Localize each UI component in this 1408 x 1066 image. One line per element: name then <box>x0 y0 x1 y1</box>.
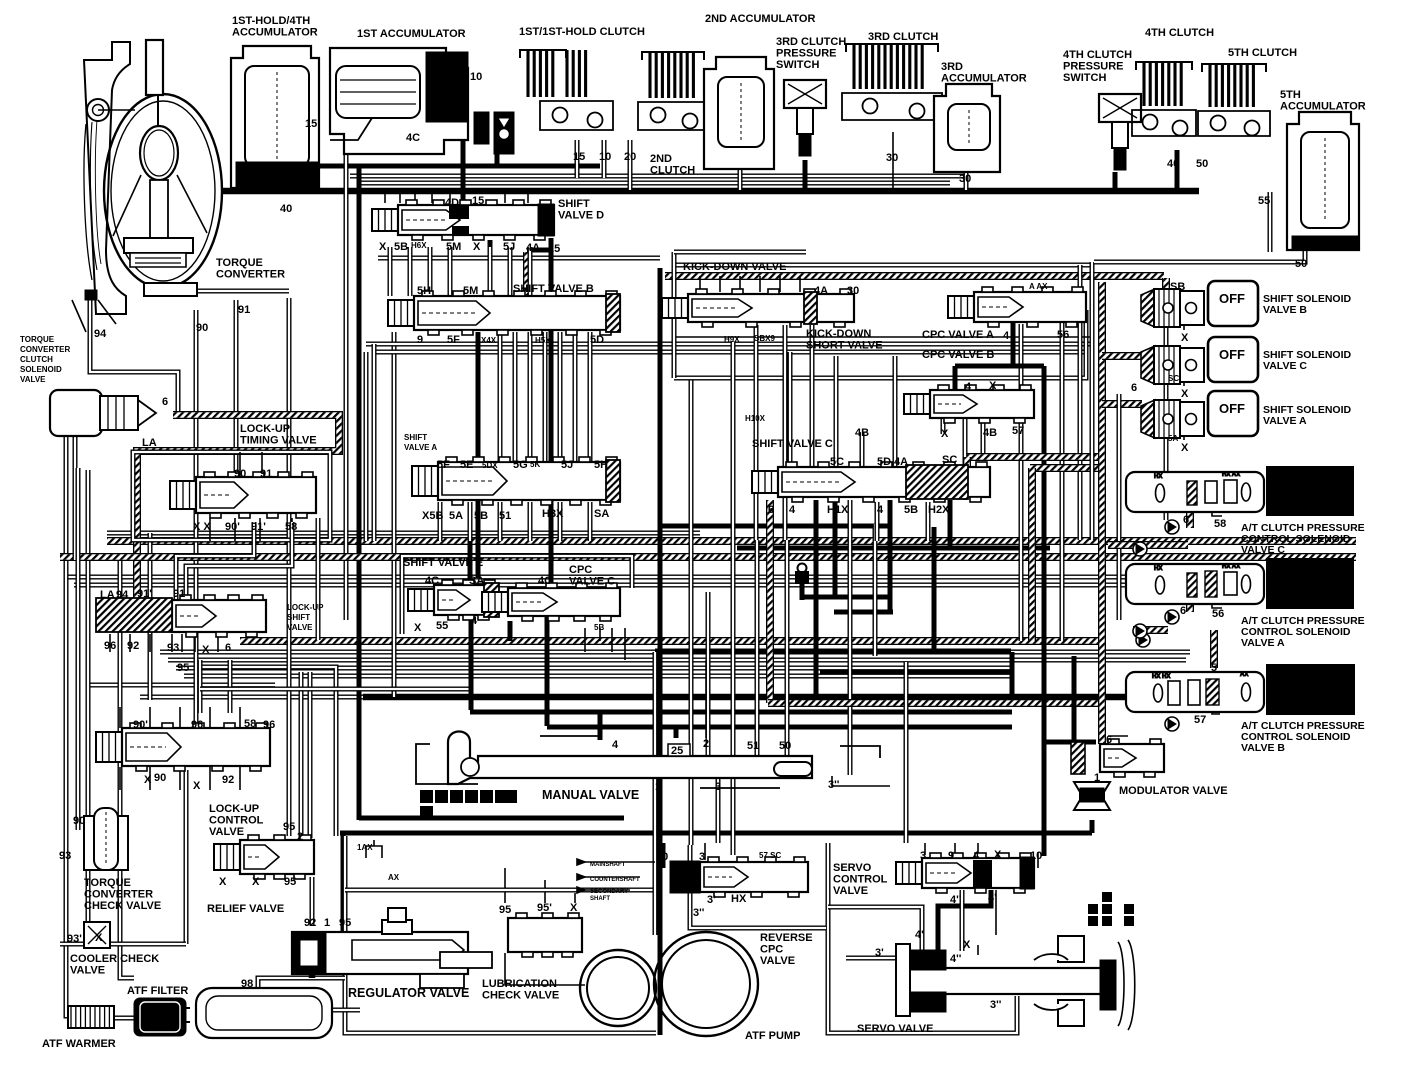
check valve <box>1136 633 1150 647</box>
wire <box>198 660 203 713</box>
svg-text:5B: 5B <box>394 241 408 253</box>
svg-text:95: 95 <box>339 917 351 929</box>
wire <box>66 430 74 1016</box>
wire <box>200 687 470 692</box>
wire <box>149 634 151 652</box>
wire <box>372 344 377 541</box>
svg-text:4: 4 <box>973 850 980 862</box>
wire <box>967 453 1102 461</box>
wire <box>674 310 1086 378</box>
wire <box>611 628 613 652</box>
wire <box>359 816 624 821</box>
wire <box>954 843 956 855</box>
wire <box>810 325 815 467</box>
shift solenoid valve B off box <box>1208 281 1258 326</box>
wire <box>799 276 801 292</box>
wire <box>674 250 806 255</box>
label relief valve <box>207 903 284 915</box>
label lock-up timing valve <box>240 423 317 447</box>
regulator valve <box>292 908 492 988</box>
wire <box>258 978 345 988</box>
wire <box>1162 278 1170 298</box>
1st/1st-hold clutch <box>520 50 613 130</box>
svg-text:HX AX: HX AX <box>1222 564 1240 570</box>
svg-text:1ST-HOLD/4TH: 1ST-HOLD/4TH <box>232 15 310 27</box>
wire <box>1028 468 1036 641</box>
wire <box>438 502 443 541</box>
wire <box>1098 282 1106 744</box>
svg-text:VALVE C: VALVE C <box>1241 544 1285 556</box>
wire <box>1030 464 1102 472</box>
label shift valve A <box>404 433 437 452</box>
svg-text:ATF FILTER: ATF FILTER <box>127 985 188 997</box>
svg-text:4: 4 <box>877 504 884 516</box>
label mainshaft <box>590 862 626 868</box>
svg-text:5G: 5G <box>513 459 528 471</box>
wire <box>833 500 838 597</box>
wire <box>76 468 81 830</box>
label shift solenoid valve B <box>1263 293 1352 316</box>
svg-text:25: 25 <box>671 745 683 757</box>
wire <box>388 247 393 296</box>
wire <box>1037 852 1039 868</box>
svg-text:AX: AX <box>1240 672 1248 678</box>
svg-text:X4X: X4X <box>481 336 497 345</box>
wire <box>977 843 979 855</box>
svg-text:3: 3 <box>920 850 926 862</box>
svg-text:4TH CLUTCH: 4TH CLUTCH <box>1145 27 1214 39</box>
svg-text:5H: 5H <box>594 459 608 471</box>
wire <box>672 252 677 378</box>
svg-text:95: 95 <box>284 876 296 888</box>
svg-text:CONVERTER: CONVERTER <box>20 345 70 354</box>
svg-text:ACCUMULATOR: ACCUMULATOR <box>232 27 318 39</box>
wire <box>357 166 362 820</box>
label lubrication check valve <box>482 978 559 1002</box>
svg-text:R: R <box>438 793 446 804</box>
label 3rd clutch <box>868 31 938 43</box>
wire <box>1102 352 1142 360</box>
wire <box>384 192 386 203</box>
wire <box>658 268 663 1035</box>
wire <box>209 707 211 728</box>
wire <box>357 181 950 186</box>
svg-text:P: P <box>423 793 430 804</box>
wire <box>133 452 330 540</box>
svg-text:57: 57 <box>1012 425 1024 437</box>
label a/t cpc solenoid valve A <box>1241 615 1365 649</box>
wire <box>468 502 473 541</box>
wire <box>960 890 965 951</box>
label lock-up control valve <box>209 803 264 838</box>
label servo control valve <box>833 862 888 897</box>
wire <box>209 518 211 541</box>
wire <box>209 767 211 790</box>
svg-text:20: 20 <box>624 151 636 163</box>
wire <box>544 880 546 903</box>
svg-text:ATF PUMP: ATF PUMP <box>745 1030 800 1042</box>
wire <box>341 833 346 940</box>
svg-text:SHIFT VALVE B: SHIFT VALVE B <box>513 283 594 295</box>
modulator valve hatch <box>1071 742 1085 774</box>
wire <box>624 628 626 660</box>
wire <box>948 500 953 548</box>
wire <box>754 325 759 540</box>
wire <box>431 192 433 203</box>
svg-text:TORQUE: TORQUE <box>216 257 263 269</box>
wire <box>1102 400 1142 408</box>
wire <box>160 650 1190 655</box>
svg-text:50: 50 <box>1295 258 1307 270</box>
wire <box>1183 374 1185 386</box>
wire <box>239 707 241 728</box>
label 4th clutch <box>1145 27 1214 39</box>
wire <box>846 956 896 961</box>
a/t cpc solenoid valve B body <box>1126 672 1264 712</box>
wire <box>461 120 466 200</box>
svg-text:92: 92 <box>304 917 316 929</box>
svg-text:TIMING VALVE: TIMING VALVE <box>240 435 317 447</box>
svg-text:HX: HX <box>731 893 747 905</box>
wire <box>402 556 632 634</box>
svg-text:90: 90 <box>154 772 166 784</box>
svg-text:SWITCH: SWITCH <box>776 59 819 71</box>
svg-text:91: 91 <box>173 588 185 600</box>
svg-text:VALVE D: VALVE D <box>558 210 604 222</box>
svg-text:5D: 5D <box>877 456 891 468</box>
shift solenoid valve C symbol <box>1141 346 1204 384</box>
label lock-up shift valve <box>287 603 324 632</box>
svg-text:10: 10 <box>470 71 482 83</box>
svg-text:4TH CLUTCH: 4TH CLUTCH <box>1063 49 1132 61</box>
wire <box>364 352 369 541</box>
label a/t cpc solenoid valve C <box>1241 522 1365 556</box>
wire <box>955 364 1044 369</box>
svg-text:4: 4 <box>965 381 972 393</box>
wire <box>149 767 151 790</box>
torque converter <box>72 40 222 332</box>
wire <box>1268 192 1273 252</box>
wire <box>186 522 292 600</box>
svg-text:HX: HX <box>1154 566 1162 572</box>
svg-text:50: 50 <box>779 740 791 752</box>
wire <box>217 634 219 652</box>
svg-text:H5X: H5X <box>535 336 551 345</box>
svg-text:SECONDARY: SECONDARY <box>590 889 628 895</box>
svg-text:4': 4' <box>988 892 997 904</box>
svg-text:4: 4 <box>1003 330 1010 342</box>
wire <box>759 276 761 292</box>
svg-text:SA: SA <box>594 508 609 520</box>
torque converter clutch solenoid valve <box>50 390 156 436</box>
wire <box>995 890 997 935</box>
wire <box>179 767 181 790</box>
svg-text:HX: HX <box>1154 474 1162 480</box>
wire <box>372 350 1086 355</box>
svg-text:91': 91' <box>251 521 266 533</box>
a/t cpc solenoid valve A block <box>1266 558 1354 609</box>
svg-text:X: X <box>202 644 210 656</box>
svg-text:LUBRICATION: LUBRICATION <box>482 978 557 990</box>
wire <box>655 649 1011 654</box>
svg-text:15: 15 <box>573 151 585 163</box>
svg-text:15: 15 <box>305 118 317 130</box>
wire <box>803 160 808 190</box>
wire <box>428 247 433 296</box>
shift solenoid valve C off box <box>1208 337 1258 382</box>
svg-text:REVERSE: REVERSE <box>760 932 813 944</box>
wire <box>74 583 1160 588</box>
svg-text:5TH: 5TH <box>1280 89 1301 101</box>
svg-text:3': 3' <box>707 894 716 906</box>
wire <box>547 725 1012 730</box>
label tcc solenoid valve <box>20 335 70 384</box>
servo control valve middle black section <box>973 860 992 887</box>
svg-text:56: 56 <box>1057 329 1069 341</box>
svg-text:5K: 5K <box>530 460 540 469</box>
wire <box>73 436 78 560</box>
svg-text:25: 25 <box>548 243 560 255</box>
wire <box>528 247 533 296</box>
label 5th clutch <box>1228 47 1297 59</box>
label kick-down valve <box>683 261 786 273</box>
svg-text:SHIFT VALVE C: SHIFT VALVE C <box>752 438 833 450</box>
wire <box>963 457 971 500</box>
wire <box>1164 298 1169 520</box>
svg-text:95: 95 <box>499 904 511 916</box>
wire <box>549 238 554 586</box>
label shift valve C <box>752 438 833 450</box>
wire <box>88 683 275 688</box>
wire <box>545 616 550 726</box>
label a/t cpc solenoid valve B <box>1241 720 1365 754</box>
svg-text:H9X: H9X <box>724 335 740 344</box>
label 5th accumulator <box>1280 89 1366 113</box>
svg-text:CHECK VALVE: CHECK VALVE <box>84 900 161 912</box>
svg-text:CONVERTER: CONVERTER <box>216 269 285 281</box>
wire <box>814 500 819 700</box>
label countershaft <box>590 877 640 883</box>
wire <box>448 247 453 296</box>
wire <box>414 192 416 203</box>
svg-text:LA: LA <box>142 437 157 449</box>
wire <box>527 248 552 253</box>
svg-text:ACCUMULATOR: ACCUMULATOR <box>941 73 1027 85</box>
wire <box>239 452 241 477</box>
svg-text:95': 95' <box>537 902 552 914</box>
label kick-down short valve <box>806 328 883 352</box>
wire <box>602 140 607 178</box>
svg-text:5H: 5H <box>417 285 431 297</box>
wire <box>194 634 196 652</box>
svg-text:5D: 5D <box>590 334 604 346</box>
wire <box>860 432 865 467</box>
servo control valve <box>896 853 1034 893</box>
svg-text:5DX: 5DX <box>482 461 498 470</box>
svg-text:VALVE A: VALVE A <box>404 443 437 452</box>
svg-text:1ST/1ST-HOLD CLUTCH: 1ST/1ST-HOLD CLUTCH <box>519 26 645 38</box>
wire <box>176 522 254 600</box>
svg-text:1ST ACCUMULATOR: 1ST ACCUMULATOR <box>357 28 466 40</box>
svg-text:5J: 5J <box>561 459 573 471</box>
svg-text:CPC VALVE B: CPC VALVE B <box>922 349 994 361</box>
3rd accumulator <box>934 84 1000 172</box>
svg-text:SBX9: SBX9 <box>754 334 775 343</box>
svg-text:1: 1 <box>655 781 661 793</box>
svg-text:X: X <box>252 876 260 888</box>
wire <box>1212 502 1222 516</box>
wire <box>528 332 533 462</box>
cpc valve C <box>482 583 620 621</box>
wire <box>107 531 700 536</box>
wire <box>575 140 580 178</box>
wire <box>1108 735 1128 737</box>
svg-text:SHIFT: SHIFT <box>287 613 310 622</box>
wire <box>981 418 986 458</box>
wire <box>408 247 413 296</box>
svg-text:X: X <box>379 241 387 253</box>
wire <box>737 546 1050 551</box>
wire <box>528 502 533 541</box>
wire <box>977 945 979 955</box>
svg-text:X: X <box>963 939 971 951</box>
wire <box>716 776 721 843</box>
svg-text:3: 3 <box>715 781 721 793</box>
bracket 1AX <box>366 840 382 858</box>
wire <box>332 1008 360 1013</box>
wire <box>196 632 336 836</box>
wire <box>893 356 898 467</box>
label cpc valve C <box>569 564 615 588</box>
wire <box>392 332 397 697</box>
wire <box>299 672 304 838</box>
svg-text:58: 58 <box>244 718 256 730</box>
svg-text:5TH CLUTCH: 5TH CLUTCH <box>1228 47 1297 59</box>
svg-text:SHAFT: SHAFT <box>590 896 610 902</box>
label 1st/1st-hold clutch <box>519 26 645 38</box>
svg-text:5M: 5M <box>463 285 478 297</box>
svg-text:VALVE: VALVE <box>833 885 868 897</box>
svg-text:10: 10 <box>656 851 668 863</box>
svg-text:X: X <box>1181 442 1189 454</box>
svg-text:98: 98 <box>241 978 253 990</box>
svg-text:SERVO VALVE: SERVO VALVE <box>857 1023 933 1035</box>
wire <box>261 452 263 477</box>
svg-text:REGULATOR VALVE: REGULATOR VALVE <box>348 986 469 1000</box>
1st-hold/4th accumulator <box>231 46 319 188</box>
svg-text:5B: 5B <box>904 504 918 516</box>
wire <box>508 621 513 641</box>
svg-text:ATF WARMER: ATF WARMER <box>42 1038 116 1050</box>
svg-text:SA: SA <box>469 575 484 587</box>
svg-text:5F: 5F <box>447 334 460 346</box>
svg-text:X: X <box>1181 332 1189 344</box>
svg-text:VALVE C: VALVE C <box>1263 360 1307 372</box>
shift valve B <box>388 291 620 335</box>
4th clutch pressure switch <box>1099 94 1141 170</box>
5th clutch <box>1198 64 1270 136</box>
wire <box>932 527 937 652</box>
wire <box>785 540 790 756</box>
svg-text:51: 51 <box>747 740 759 752</box>
svg-text:OFF: OFF <box>1219 401 1245 416</box>
wire <box>504 868 506 903</box>
shift solenoid valve B symbol <box>1141 289 1204 327</box>
wire <box>527 192 529 203</box>
wire <box>599 628 601 641</box>
svg-text:VALVE B: VALVE B <box>1263 304 1307 316</box>
label shift solenoid valve A <box>1263 404 1352 427</box>
svg-text:90': 90' <box>225 521 240 533</box>
wire <box>495 148 500 165</box>
wire <box>755 540 760 756</box>
svg-text:X: X <box>1181 388 1189 400</box>
wire <box>674 727 679 738</box>
wire <box>239 767 241 790</box>
svg-text:VALVE C: VALVE C <box>569 576 615 588</box>
wire <box>628 140 633 190</box>
label shift valve D <box>558 198 604 222</box>
wire <box>1094 250 1305 262</box>
wire <box>308 672 313 838</box>
label shift valve E <box>403 557 483 569</box>
svg-text:MAINSHAFT: MAINSHAFT <box>590 862 626 868</box>
wire <box>938 890 991 951</box>
svg-text:X: X <box>941 428 949 440</box>
svg-text:4B: 4B <box>983 427 997 439</box>
check valve 10 <box>474 112 514 154</box>
svg-text:30: 30 <box>886 152 898 164</box>
wire <box>672 336 1090 338</box>
label servo valve <box>857 1023 933 1035</box>
wire <box>228 660 233 713</box>
wire <box>234 300 239 477</box>
wire <box>1183 318 1185 330</box>
wire <box>488 240 493 296</box>
label 2nd accumulator <box>705 13 815 25</box>
wire <box>1046 740 1096 745</box>
svg-text:X: X <box>219 876 227 888</box>
svg-text:D: D <box>468 793 475 804</box>
svg-text:4C: 4C <box>425 575 439 587</box>
wire <box>820 670 1010 675</box>
svg-text:4: 4 <box>789 504 796 516</box>
wire <box>1042 366 1047 856</box>
label 3rd clutch pressure switch <box>776 36 846 71</box>
svg-text:5F: 5F <box>437 459 450 471</box>
wire <box>653 652 658 935</box>
lubrication check valve <box>508 913 582 957</box>
wire <box>107 537 1356 545</box>
svg-text:94: 94 <box>94 328 107 340</box>
svg-text:96: 96 <box>191 719 203 731</box>
svg-text:1AX: 1AX <box>357 843 373 852</box>
svg-text:58: 58 <box>285 521 297 533</box>
wire <box>222 188 1199 195</box>
3rd clutch pressure switch <box>784 80 826 156</box>
svg-text:N: N <box>453 793 460 804</box>
wire <box>60 553 1356 561</box>
svg-text:3: 3 <box>483 793 489 804</box>
svg-text:4': 4' <box>915 929 924 941</box>
svg-text:93: 93 <box>59 850 71 862</box>
label cpc valve A <box>922 329 994 341</box>
svg-text:91: 91 <box>238 304 250 316</box>
svg-text:VALVE: VALVE <box>70 965 105 977</box>
node junction box <box>795 564 809 601</box>
wire <box>345 888 656 893</box>
wire <box>738 170 743 190</box>
